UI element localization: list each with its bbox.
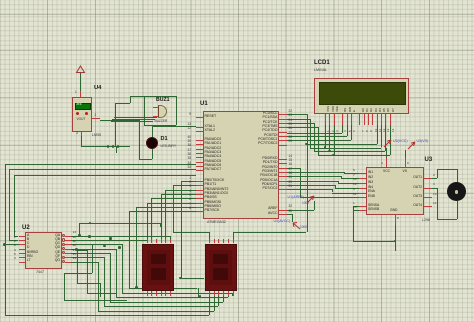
pin U1.35 PA5/ADC5 xyxy=(196,162,204,163)
pin 7SEG2 bottom 4 xyxy=(223,291,224,296)
pin BUZ1.2 xyxy=(153,116,158,117)
pin U1.19 PD5/OC1A xyxy=(279,181,287,182)
wire U1 PB7 staircase xyxy=(129,211,196,212)
pin 7SEG1 top 4 xyxy=(161,239,162,244)
wire buzzer-gnd vertical xyxy=(115,103,116,146)
pin U1.14 PD0/RXD xyxy=(279,159,287,160)
pin U1.18 PD4/OC1B xyxy=(279,176,287,177)
pin LCD1.8 D1 xyxy=(364,114,365,125)
pin U1.22 PC0/SCL xyxy=(279,114,287,115)
wire left wrap C xyxy=(14,175,196,176)
wire ground row xyxy=(81,146,130,147)
label 7447 xyxy=(36,271,44,275)
driver U3 L298 body xyxy=(366,167,424,215)
pin U2.13 QA xyxy=(62,234,65,237)
pin U2.9 QE xyxy=(62,251,65,254)
pin U1.8 PB7/SCK xyxy=(196,211,204,212)
pin U1.4 PB3/AIN1/OC0 xyxy=(196,194,204,195)
wire U2 QA to display1 xyxy=(71,236,170,237)
wire LCD D4 from PC0 xyxy=(287,114,307,115)
power flag U1(AREF) xyxy=(305,195,317,205)
pin U1.33 PA7/ADC7 xyxy=(196,170,204,171)
label U4 xyxy=(94,86,101,92)
lcd screen xyxy=(319,82,406,105)
pin U1.6 PB5/MOSI xyxy=(196,203,204,204)
pin 7SEG1 top 1 xyxy=(147,239,148,244)
wire U3 ENA from PD7 xyxy=(287,189,332,190)
label U2 xyxy=(22,225,30,231)
label D1 xyxy=(161,137,168,143)
wire AREF power xyxy=(287,210,314,211)
pin LCD1.12 D5 xyxy=(381,114,382,125)
ground GND1 xyxy=(116,146,117,153)
pin 7SEG2 top 2 xyxy=(214,239,215,244)
pin U2.14 QG xyxy=(62,260,65,263)
pin U1.27 PC5/TDI xyxy=(279,136,287,137)
wire upper bus y223 xyxy=(79,223,160,224)
power flag U3(VCC) xyxy=(382,139,394,149)
pin U2.4 BI/RBO xyxy=(19,253,26,254)
pin U3.2 OUT1 xyxy=(424,178,432,179)
pin U2.11 QC xyxy=(62,243,65,246)
pin 7SEG2 top 4 xyxy=(223,239,224,244)
pin U1.20 PD6/ICP1 xyxy=(279,185,287,186)
pin 7SEG1 bottom 3 xyxy=(156,291,157,296)
node junctions lower left xyxy=(109,237,112,240)
wire U1 PB1 staircase xyxy=(173,185,196,186)
wire motor loop OUT2 xyxy=(432,188,438,189)
wire LCD D6 from PC2 xyxy=(287,123,314,124)
wire U2 QF bus xyxy=(71,257,104,258)
wire U3 VCC stem xyxy=(386,148,387,158)
wire U2 input C tap xyxy=(5,244,19,245)
pin U1.39 PA1/ADC1 xyxy=(196,144,204,145)
pin LCD1.14 D7 xyxy=(390,114,391,125)
pin U1.36 PA4/ADC4 xyxy=(196,157,204,158)
display 7SEG1 7-segment body xyxy=(142,244,174,292)
wire LCD E from PC7 xyxy=(351,125,352,140)
net label U3(VS) xyxy=(417,140,429,144)
pin U4.2 VOUT xyxy=(92,118,100,119)
pin LCD1.1 VSS xyxy=(325,114,326,125)
pin U3.12 IN4 xyxy=(359,188,367,189)
pin 7SEG2 top 1 xyxy=(209,239,210,244)
pin U1.13 XTAL1 xyxy=(196,127,204,128)
LED D1 xyxy=(146,137,158,149)
wire LCD VDD xyxy=(329,125,330,151)
pin U4.1 xyxy=(80,91,81,97)
wire AVCC power xyxy=(287,214,292,215)
label LCD1 xyxy=(314,60,330,66)
pin U1.26 PC4/TDO xyxy=(279,132,287,133)
label ATMEGA32 xyxy=(207,221,226,225)
pin U3.10 IN3 xyxy=(359,183,367,184)
pin 7SEG1 top 6 xyxy=(170,239,171,244)
pin U3.8 GND xyxy=(395,215,396,225)
pin LCD1.3 VEE xyxy=(334,114,335,125)
wire U1 PB5 staircase xyxy=(147,203,197,204)
wire U1 PB0 to display2 xyxy=(181,181,196,182)
label BUZ1 xyxy=(156,98,170,103)
pin U3.1 SENSA xyxy=(359,206,367,207)
pin 7SEG2 top 6 xyxy=(233,239,234,244)
pin 7SEG1 top 3 xyxy=(156,239,157,244)
pin U1.29 PC7/TOSC2 xyxy=(279,145,287,146)
pin U2.10 QD xyxy=(62,247,65,250)
pin LCD1.5 RW xyxy=(347,114,348,125)
wire left wrap A xyxy=(5,164,197,165)
motor L1 body xyxy=(447,182,466,201)
wire left wrap B xyxy=(9,169,196,170)
pin 7SEG2 bottom 1 xyxy=(209,291,210,296)
pin U1.9 RESET xyxy=(196,117,204,118)
pin U1.23 PC1/SDA xyxy=(279,119,287,120)
net label U1(AVCC) xyxy=(274,220,291,224)
pin U1.5 PB4/SS xyxy=(196,198,204,199)
wire buzzer loop left xyxy=(144,96,145,125)
pin LCD1.10 D3 xyxy=(372,114,373,125)
label U3 xyxy=(425,157,433,163)
pin 7SEG1 top 2 xyxy=(151,239,152,244)
pin U2.7 A xyxy=(19,236,26,237)
wire LCD D7 from PC3 xyxy=(287,127,318,128)
wire U2 QC bus xyxy=(71,244,122,245)
pin LCD1.4 RS xyxy=(342,114,343,125)
wire above buzzer xyxy=(130,96,175,97)
wire long vertical to display2 xyxy=(307,144,308,233)
wire bus B1 xyxy=(129,288,197,289)
ground GND2 xyxy=(395,241,396,251)
pin U1.38 PA2/ADC2 xyxy=(196,149,204,150)
label LED-BIRY xyxy=(161,145,177,148)
wire U1 PB4 staircase xyxy=(151,198,196,199)
label BUZZER xyxy=(155,120,168,123)
wire U2 QD bus xyxy=(71,249,116,250)
wire U3 VS stem xyxy=(405,150,406,158)
label U1 xyxy=(200,101,208,107)
lcd LCD1 LM016L body xyxy=(314,78,409,114)
wire U3 SENSA SENSB to ground xyxy=(353,206,359,207)
decoder U2 7447 body xyxy=(25,232,62,269)
pin U3.5 IN1 xyxy=(359,173,367,174)
wire lower-left mesh b xyxy=(87,256,88,293)
pin U2.1 B xyxy=(19,240,26,241)
power flag U1(AVCC) xyxy=(291,221,303,231)
pin LCD1.11 D4 xyxy=(377,114,378,125)
wire bottom-most bus xyxy=(5,315,209,316)
pin U1.17 PD3/INT1 xyxy=(279,172,287,173)
wire U3 ENB from PD2 xyxy=(287,168,300,169)
pin U1.15 PD1/TXD xyxy=(279,163,287,164)
pin U2.3 LT xyxy=(19,262,26,263)
power flag U3(VS) xyxy=(406,141,418,151)
pin U1.12 XTAL2 xyxy=(196,131,204,132)
pin U2.6 D xyxy=(19,249,26,250)
pin U1.16 PD2/INT0 xyxy=(279,168,287,169)
pin LCD1.7 D0 xyxy=(359,114,360,125)
pin U1.37 PA3/ADC3 xyxy=(196,153,204,154)
wire U2 QE bus xyxy=(71,253,110,254)
label LM016L xyxy=(314,69,327,73)
wire U2 QG bus xyxy=(71,262,98,263)
pin U2.15 QF xyxy=(62,256,65,259)
pin U3.11 ENB xyxy=(359,197,367,198)
pin U3.9 VS xyxy=(405,158,406,167)
pin U1.34 PA6/ADC6 xyxy=(196,166,204,167)
pin U3.15 SENSB xyxy=(359,210,367,211)
mcu U1 ATMEGA32 body xyxy=(203,111,279,219)
pin 7SEG1 bottom 5 xyxy=(165,291,166,296)
pin U1.7 PB6/MISO xyxy=(196,207,204,208)
pin 7SEG2 bottom 3 xyxy=(218,291,219,296)
node junction ground row xyxy=(107,145,110,148)
wire lower-left mesh c xyxy=(77,250,78,284)
power flag VCC1 (above U4) xyxy=(75,65,86,74)
pin U1.40 PA0/ADC0 xyxy=(196,140,204,141)
pin 7SEG2 bottom 5 xyxy=(228,291,229,296)
pin LCD1.9 D2 xyxy=(368,114,369,125)
wire LCD RS from PC5 xyxy=(342,125,343,132)
wire U2 QB to display1 xyxy=(71,240,147,241)
pin LCD1.2 VDD xyxy=(329,114,330,125)
wire LCD RW from PC6 xyxy=(347,125,348,136)
wire D1 cathode stem xyxy=(152,149,153,159)
pin U1.1 PB0/T0/XCK xyxy=(196,181,204,182)
pin 7SEG2 top 3 xyxy=(218,239,219,244)
display 7SEG2 7-segment body xyxy=(205,244,237,292)
pin U2.5 RBI xyxy=(19,257,26,258)
pin 7SEG2 bottom 6 xyxy=(233,291,234,296)
wire LM35 GND down xyxy=(81,136,82,146)
pin U3.13 OUT3 xyxy=(424,197,432,198)
wire LM35 power stem xyxy=(80,73,81,97)
wire U3 GND down xyxy=(395,225,396,241)
pin U4.3 xyxy=(81,132,82,137)
pin U2.2 C xyxy=(19,244,26,245)
pin LCD1.6 E xyxy=(351,114,352,125)
pin U3.4 VCC xyxy=(386,158,387,167)
wire U3 IN2 from PD4 xyxy=(287,176,341,177)
pin U2.12 QB xyxy=(62,238,65,241)
pin 7SEG1 top 5 xyxy=(165,239,166,244)
pin 7SEG2 top 5 xyxy=(228,239,229,244)
wire LM35 VOUT run xyxy=(100,120,139,121)
label L298 xyxy=(422,219,430,223)
pin U1.25 PC3/TMS xyxy=(279,127,287,128)
wire U1 PB6 staircase xyxy=(136,207,196,208)
wire U3 IN1 from PD3 xyxy=(287,172,344,173)
label U4 VOUT xyxy=(77,118,86,121)
wire lower-left mesh a xyxy=(64,273,93,274)
wire LCD D5 from PC1 xyxy=(287,119,310,120)
sensor U4 LM35 body xyxy=(72,97,92,132)
wire buzzer loop right xyxy=(176,96,177,125)
pin U1.3 PB2/AIN0/INT2 xyxy=(196,190,204,191)
wire D1 anode run xyxy=(152,126,153,137)
pin 7SEG1 bottom 6 xyxy=(170,291,171,296)
pin U3.14 OUT4 xyxy=(424,206,432,207)
wire LCD VEE xyxy=(334,125,335,155)
pin 7SEG1 bottom 1 xyxy=(147,291,148,296)
wire U1 PB2 staircase xyxy=(165,190,196,191)
pin 7SEG1 bottom 4 xyxy=(161,291,162,296)
pin U3.6 ENA xyxy=(359,193,367,194)
label LM35 xyxy=(92,134,101,138)
pin U3.7 IN2 xyxy=(359,178,367,179)
pin LCD1.13 D6 xyxy=(385,114,386,125)
pin U1.28 PC6/TOSC1 xyxy=(279,140,287,141)
wire U3 IN3 from PD5 xyxy=(287,181,338,182)
wire U1 PB3 staircase xyxy=(161,194,196,195)
pin 7SEG2 bottom 2 xyxy=(214,291,215,296)
pin U1.30 AVCC xyxy=(279,214,287,215)
wire LCD VSS xyxy=(325,125,326,147)
pin BUZ1.1 xyxy=(153,107,158,108)
pin U1.2 PB1/T1 xyxy=(196,185,204,186)
net label U1(AREF) xyxy=(288,196,305,200)
wire motor loop OUT1 xyxy=(432,178,438,179)
pin U1.32 AREF xyxy=(279,210,287,211)
pin 7SEG1 bottom 2 xyxy=(151,291,152,296)
pin U1.24 PC2/TCK xyxy=(279,123,287,124)
net label U3(VCC) xyxy=(393,140,408,144)
wire U3 IN4 from PD6 xyxy=(287,185,335,186)
wire buzzer loop bottom xyxy=(144,125,176,126)
pin U1.21 PD7/OC2 xyxy=(279,189,287,190)
pin U3.3 OUT2 xyxy=(424,188,432,189)
buzzer BUZ1 xyxy=(158,105,167,119)
